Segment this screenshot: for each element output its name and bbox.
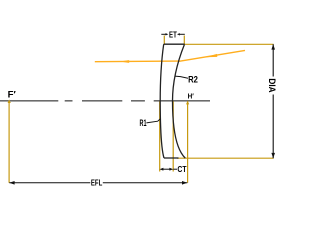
node H' arrow bbox=[186, 101, 189, 105]
lens bottom edge bbox=[164, 157, 179, 159]
incident ray bbox=[179, 50, 245, 61]
lens surface R2 curve bbox=[173, 44, 186, 158]
EFL dimension line bbox=[9, 181, 187, 185]
R2 leader bbox=[175, 76, 188, 78]
svg-text:R1: R1 bbox=[140, 118, 147, 129]
lens outline bbox=[160, 44, 185, 158]
R1 leader bbox=[146, 119, 160, 123]
svg-text:R2: R2 bbox=[188, 74, 198, 85]
svg-text:F′: F′ bbox=[8, 90, 17, 101]
svg-text:CT: CT bbox=[177, 164, 187, 174]
svg-text:DIA: DIA bbox=[267, 78, 277, 93]
lens top edge bbox=[164, 43, 185, 45]
incident ray arrowhead bbox=[206, 54, 218, 57]
refracted ray bbox=[95, 60, 179, 63]
svg-text:ET: ET bbox=[169, 29, 177, 39]
wire: DIA bottom connector bbox=[177, 157, 274, 159]
CT dimension line bbox=[160, 168, 178, 171]
ET dimension arrows bbox=[161, 33, 185, 35]
refracted ray arrowhead bbox=[120, 60, 129, 63]
node H' extension line bbox=[187, 101, 189, 183]
optical axis (dash-dot centerline) bbox=[0, 100, 210, 102]
node F' extension line bbox=[8, 101, 10, 183]
CT extension lines bbox=[160, 101, 174, 171]
node F' arrow bbox=[8, 99, 11, 103]
ET extension lines bbox=[164, 36, 184, 45]
svg-text:EFL: EFL bbox=[91, 178, 102, 188]
DIA dimension line bbox=[271, 44, 275, 158]
wire: DIA top connector bbox=[185, 43, 274, 45]
svg-text:H′: H′ bbox=[188, 92, 194, 101]
lens surface R1 curve bbox=[160, 44, 164, 158]
